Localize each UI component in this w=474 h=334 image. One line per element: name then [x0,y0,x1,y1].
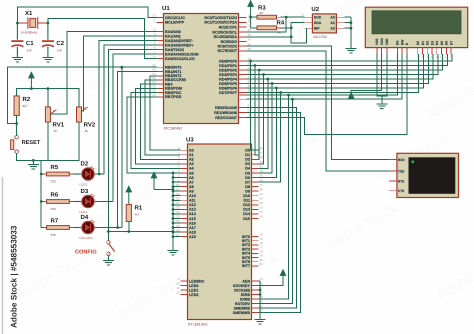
svg-text:OSC1/CLKI: OSC1/CLKI [165,16,185,20]
svg-text:10: 10 [176,282,180,286]
wire crystal left node to OSC1 [17,7,157,23]
svg-text:48: 48 [260,187,264,191]
svg-text:RC1/T1OSI/CCP2A: RC1/T1OSI/CCP2A [204,21,237,25]
svg-text:RC5/SDO: RC5/SDO [221,40,238,44]
resistor R1 4k7 [126,204,143,221]
svg-text:A14: A14 [189,212,197,216]
svg-text:IORB: IORB [241,293,251,297]
wire RV1 wiper to RA0 [50,32,157,114]
svg-text:RA6/OSC2/CLKO: RA6/OSC2/CLKO [165,57,195,61]
svg-text:LEDBNC: LEDBNC [189,279,205,283]
svg-text:RD7/PSP7: RD7/PSP7 [219,91,237,95]
wire IOCHRDY to vcc [259,280,284,286]
svg-text:D13: D13 [243,208,250,212]
svg-text:RD6/PSP6: RD6/PSP6 [219,86,237,90]
svg-text:IOCHRDY: IOCHRDY [233,284,251,288]
svg-text:D2: D2 [245,158,250,162]
svg-text:D8: D8 [245,185,250,189]
pin stub RS row [239,95,247,99]
svg-text:RA1/AN1: RA1/AN1 [165,34,181,38]
svg-text:A8: A8 [189,185,194,189]
svg-text:U3: U3 [186,137,194,144]
wire SDA net [247,23,305,37]
wire RB6 to U3 A4 [131,93,181,169]
svg-text:RE2/CS/AN7: RE2/CS/AN7 [215,116,237,120]
svg-text:RB7/PGD: RB7/PGD [165,95,182,99]
svg-text:24LC256: 24LC256 [313,35,327,39]
junction R1 bottom [127,230,130,233]
wire D3 cathode [95,201,113,203]
svg-text:RC2/CCP1: RC2/CCP1 [219,25,237,29]
wire U3 control to ground [259,281,261,318]
svg-text:12: 12 [176,291,180,295]
IC U3 RTL8019AS ethernet controller [176,137,263,327]
junction RA2 on led wire [98,173,101,176]
svg-text:4k7: 4k7 [23,104,28,108]
svg-text:D1: D1 [245,153,250,157]
svg-text:CONFIG: CONFIG [75,250,97,256]
wire LCD VSS VEE to ground [377,54,387,104]
svg-text:AEN: AEN [242,279,250,283]
svg-text:330: 330 [51,180,56,184]
svg-text:LED0: LED0 [189,284,198,288]
svg-text:D2: D2 [81,160,89,167]
svg-text:D3: D3 [245,162,250,166]
wire RA4 to config switch [108,50,157,241]
junction RW [291,98,294,101]
wire RB0 to LED D4 [121,67,123,227]
junction crystal left [16,22,19,25]
svg-text:RTS: RTS [398,179,404,183]
switch CONFIG [75,241,115,256]
svg-text:LED2: LED2 [80,183,88,187]
svg-text:330: 330 [51,207,56,211]
potentiometer RV1 1k [45,107,64,133]
junction U2 A2 [350,27,353,30]
svg-text:RTL8019AS: RTL8019AS [188,323,208,327]
junction U2 A1 [350,21,353,24]
svg-text:A15: A15 [189,217,196,221]
svg-text:D11: D11 [243,199,250,203]
resistor R3 4k7 [253,5,281,20]
svg-text:MCLR/VPP: MCLR/VPP [165,21,185,25]
LED D2 LED2 [73,160,94,186]
svg-text:D12: D12 [243,203,250,207]
junction rail vcc [30,87,33,90]
ground LCD [376,104,387,108]
svg-text:A5: A5 [189,171,194,175]
stock id watermark [10,225,19,328]
svg-text:U1: U1 [162,5,170,12]
svg-text:19.6608MHz: 19.6608MHz [21,31,39,35]
wire RE0 to U3 SMEMRB [247,108,297,309]
wire D4 cathode [95,227,122,229]
svg-text:D7: D7 [449,41,453,45]
svg-text:A18: A18 [189,230,196,234]
vcc arrow R3R4 [248,1,254,28]
ground reset rail [28,160,39,169]
svg-text:55: 55 [260,215,264,219]
svg-text:SCK: SCK [314,16,322,20]
virtual terminal [389,153,459,197]
ground U2 [345,45,356,53]
svg-text:PIC18F452: PIC18F452 [164,127,182,131]
svg-text:47: 47 [260,183,264,187]
wire led common vertical [40,160,42,227]
svg-text:RV1: RV1 [53,122,65,129]
svg-text:VEE: VEE [385,38,389,45]
svg-text:330: 330 [51,233,56,237]
wire RW net [247,54,403,303]
wire RB1 down [118,72,157,228]
wire data bus to LCD D0-D7 [247,54,453,92]
LCD module LM016L [365,7,467,59]
junction config node [107,230,110,233]
svg-text:U2: U2 [311,6,319,13]
svg-text:IOWB: IOWB [240,297,250,301]
svg-text:CTS: CTS [398,189,404,193]
LED D3 LED1 [73,188,94,214]
svg-text:A1: A1 [330,21,335,25]
wire R2 bottom to reset node [16,116,18,135]
svg-text:D4: D4 [81,214,89,221]
svg-text:R2: R2 [23,96,31,103]
wire reset bridge to RB0 [8,67,157,123]
junction led common R5 [40,173,43,176]
svg-text:RC3/SCK/SCL: RC3/SCK/SCL [212,30,237,34]
ground below C1 [12,58,23,62]
svg-text:D3: D3 [81,188,89,195]
svg-text:A0: A0 [189,149,194,153]
svg-text:RE0/RD/AN5: RE0/RD/AN5 [215,106,237,110]
svg-text:RA2/AN2/VREF-: RA2/AN2/VREF- [165,39,194,43]
svg-text:1nF: 1nF [57,49,63,53]
svg-text:A16: A16 [189,221,196,225]
wire crystal right node to OSC2 [48,18,157,58]
svg-text:LED-RED: LED-RED [80,236,94,240]
svg-text:RXD: RXD [398,158,405,162]
svg-text:C2: C2 [56,40,64,47]
IC U2 24LC256 eeprom [302,6,345,39]
wire RB4 to U3 A2 [140,84,180,159]
svg-text:D1: D1 [421,41,425,45]
svg-text:34: 34 [260,277,264,281]
svg-text:RC4/SDI/SDA: RC4/SDI/SDA [214,35,238,39]
svg-text:D3: D3 [430,41,434,45]
junction crystal right [47,22,50,25]
svg-text:RD4/PSP4: RD4/PSP4 [219,77,238,81]
svg-text:A11: A11 [189,199,196,203]
junction RS [287,94,290,97]
IC U1 PIC18F452 microcontroller [152,5,251,131]
junction R3 left [249,16,252,19]
wire U3 address tie stubs [172,172,181,239]
vcc arrow LCD [348,93,354,100]
junction rail gnd [32,159,35,162]
capacitor C2 1nF [42,23,65,58]
svg-text:SMEMWB: SMEMWB [233,311,251,315]
svg-text:RA4/T0CKI: RA4/T0CKI [165,48,184,52]
svg-text:36: 36 [260,146,264,150]
svg-text:50: 50 [260,196,264,200]
wire RA3 to LED D2 [104,45,157,174]
resistor R4 4k7 [253,20,285,35]
junction RB1 on led wire [116,226,119,229]
junction SDA rc4 [290,35,293,38]
svg-text:4k7: 4k7 [135,213,140,217]
resistor R7 330 [41,217,73,237]
svg-text:A0: A0 [330,16,335,20]
svg-text:D2: D2 [426,41,430,45]
svg-text:VDD: VDD [380,38,384,46]
junction reset node [15,122,18,125]
ground below C2 [42,58,53,62]
junction RB0 bridge [120,66,123,69]
wire SCL net [247,17,305,32]
svg-text:D0: D0 [245,149,250,153]
svg-text:D9: D9 [245,189,250,193]
wire data bus to U3 D0-D7 [249,60,282,182]
svg-text:A12: A12 [189,203,196,207]
junction led common R6 [40,200,43,203]
crystal X1 19.6608MHz [17,10,48,35]
svg-text:1nF: 1nF [26,49,32,53]
svg-text:A6: A6 [189,176,194,180]
potentiometer RV2 1k [77,107,96,133]
svg-text:D6: D6 [245,176,250,180]
wire RB3 to U3 A1 [145,80,180,155]
svg-text:24: 24 [248,38,252,42]
svg-text:RSTDRV: RSTDRV [235,302,251,306]
svg-text:WP: WP [314,27,320,31]
svg-text:A9: A9 [189,189,194,193]
svg-text:54: 54 [260,210,264,214]
svg-text:RC6/TX/CK: RC6/TX/CK [218,44,238,48]
svg-text:D0: D0 [416,41,420,45]
svg-text:1k: 1k [85,129,89,133]
wire RB5 to U3 A3 [136,88,181,164]
svg-text:D10: D10 [243,194,250,198]
svg-text:A17: A17 [189,226,196,230]
wire switch bottom rail [17,122,79,160]
wire U2 A0-A2 to ground [344,17,351,44]
svg-text:RW: RW [400,39,404,45]
svg-text:49: 49 [260,192,264,196]
svg-text:RD0/PSP0: RD0/PSP0 [219,59,237,63]
svg-text:R5: R5 [51,164,59,171]
svg-text:38: 38 [260,156,264,160]
wire WP loop [291,28,306,43]
wire config to ground [107,256,109,261]
svg-text:1k: 1k [54,129,58,133]
wire D2 cathode [95,173,104,175]
svg-text:RD1/PSP1: RD1/PSP1 [219,64,237,68]
junction SDA [290,26,293,29]
svg-text:IOCS16B: IOCS16B [234,288,250,292]
svg-text:A13: A13 [189,208,196,212]
resistor R5 330 [41,164,73,184]
svg-text:A7: A7 [189,180,194,184]
svg-text:RD5/PSP5: RD5/PSP5 [219,82,237,86]
svg-text:RD3/PSP3: RD3/PSP3 [219,73,237,77]
vcc arrow reset rail [29,72,35,89]
svg-text:RD2/PSP2: RD2/PSP2 [219,68,237,72]
wire RE1 to U3 SMEMWB [247,113,301,313]
svg-text:D4: D4 [435,41,439,45]
wire tie line [154,173,173,247]
svg-text:SMEMRB: SMEMRB [234,306,251,310]
svg-text:VSS: VSS [375,38,379,45]
svg-text:RS: RS [396,40,400,45]
svg-text:LED1: LED1 [189,288,198,292]
svg-text:A10: A10 [189,194,196,198]
wire RC6 to RXD [247,46,389,159]
junction tie arrow [172,188,175,191]
svg-text:RA0/AN0: RA0/AN0 [165,30,181,34]
svg-text:R7: R7 [51,217,59,224]
svg-text:A2: A2 [330,27,335,31]
junction SCL [285,16,288,19]
svg-text:53: 53 [260,206,264,210]
svg-text:4k7: 4k7 [259,11,264,15]
resistor R2 4k7 [14,96,31,116]
LED D4 LED-RED [73,214,94,240]
svg-text:D15: D15 [243,217,250,221]
wire RB7 to U3 A5 [127,97,180,173]
svg-text:R4: R4 [277,20,285,27]
svg-text:RA5/AN4/SS/LVDIN: RA5/AN4/SS/LVDIN [165,52,199,56]
svg-text:A1: A1 [189,153,194,157]
ground config [103,261,114,265]
svg-text:C1: C1 [26,40,34,47]
svg-text:Adobe Stock | #548553033: Adobe Stock | #548553033 [10,225,19,328]
wire RB2 to U3 A0 [150,76,181,150]
svg-text:RV2: RV2 [84,122,96,129]
svg-text:D6: D6 [445,41,449,45]
junction U3 gnd 290 [259,289,262,292]
wire RC7 to TXD [247,51,389,171]
svg-text:11: 11 [176,286,179,290]
ground U3 [255,318,266,324]
svg-text:R6: R6 [51,191,59,198]
svg-text:D5: D5 [440,41,444,45]
svg-text:D5: D5 [245,171,250,175]
svg-text:A3: A3 [189,162,194,166]
wire vcc rail [17,89,79,107]
junction rail rv1 [47,87,50,90]
svg-text:37: 37 [260,151,264,155]
svg-text:X1: X1 [25,10,33,17]
wire RV2 wiper to RA1 [82,36,158,111]
svg-text:RE1/WR/AN6: RE1/WR/AN6 [214,111,237,115]
svg-text:INT7: INT7 [242,264,250,268]
vcc arrow U3 [280,270,286,280]
vcc arrow tie line [151,172,157,190]
svg-text:RESET: RESET [22,140,41,146]
svg-text:D7: D7 [245,180,250,184]
svg-text:SDA: SDA [314,21,322,25]
svg-text:TXD: TXD [398,169,405,173]
svg-text:RA3/AN3/VREF+: RA3/AN3/VREF+ [165,43,194,47]
wire R1 bottom row [108,222,173,232]
wire RA2 down [99,41,157,175]
svg-text:LED2: LED2 [189,293,198,297]
resistor R6 330 [41,191,73,211]
svg-text:52: 52 [260,201,264,205]
wire LCD VDD to vcc [351,54,381,99]
svg-text:A2: A2 [189,158,194,162]
junction U3 gnd 294.5 [259,293,262,296]
capacitor C1 1nF [11,23,34,58]
push button RESET [11,136,41,154]
wire RA5 to LED D3 [113,54,157,202]
svg-text:81: 81 [260,262,264,266]
svg-text:RC0/T1OSO/T1CKI: RC0/T1OSO/T1CKI [204,16,237,20]
vcc arrow R1 [126,186,132,204]
junction tie line bottom [172,230,175,233]
svg-text:A19: A19 [189,235,196,239]
svg-text:D14: D14 [243,212,251,216]
svg-text:LED1: LED1 [80,210,88,214]
svg-text:RC7/RX/DT: RC7/RX/DT [218,49,238,53]
wire RE2 to LCD E [247,54,407,134]
svg-text:R1: R1 [135,205,143,212]
photo edge line [2,177,4,334]
ground tie line [168,247,179,255]
wire RS net [247,54,398,299]
